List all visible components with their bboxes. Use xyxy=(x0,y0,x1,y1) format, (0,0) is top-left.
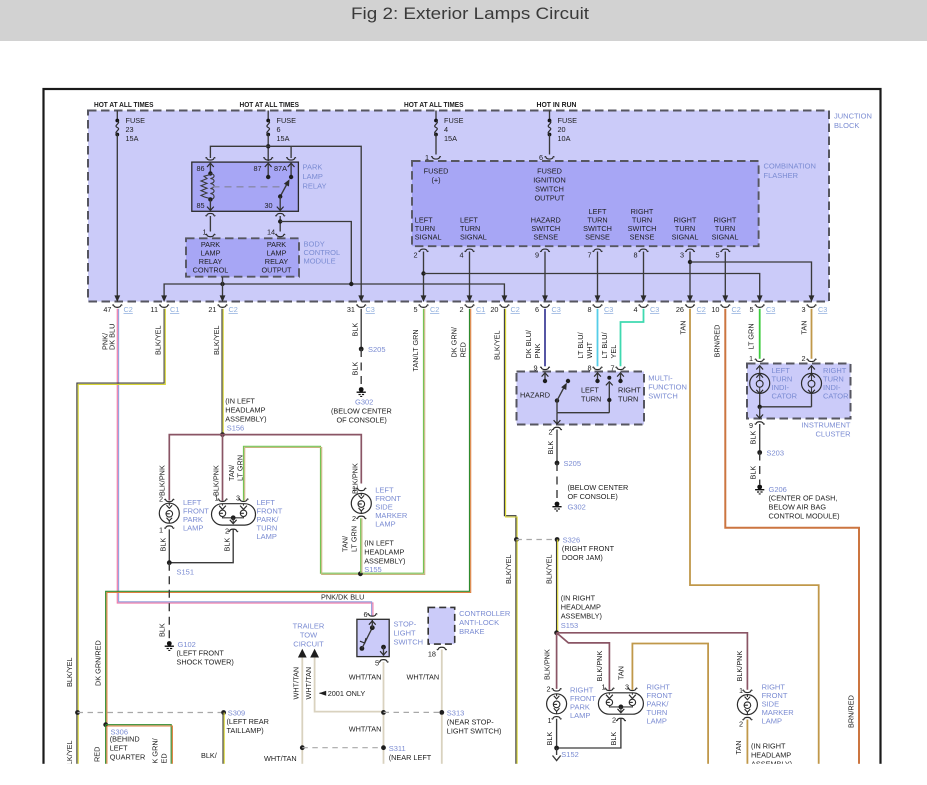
wire BLK/YEL 20C2 to S326 xyxy=(504,309,516,540)
svg-text:CLUSTER: CLUSTER xyxy=(815,430,851,439)
park lamp relay U1 xyxy=(192,162,299,211)
svg-text:SWITCH: SWITCH xyxy=(648,392,678,401)
node S205 xyxy=(359,347,364,352)
svg-text:2: 2 xyxy=(225,527,229,536)
svg-text:G302: G302 xyxy=(355,398,373,407)
svg-text:4: 4 xyxy=(633,305,637,314)
svg-text:TOW: TOW xyxy=(300,631,318,640)
svg-text:9: 9 xyxy=(749,421,753,430)
svg-text:LIGHT SWITCH): LIGHT SWITCH) xyxy=(447,727,502,736)
svg-text:BLK: BLK xyxy=(158,623,167,637)
svg-text:G302: G302 xyxy=(568,503,586,512)
svg-text:S311: S311 xyxy=(389,744,406,753)
svg-text:(NEAR STOP-: (NEAR STOP- xyxy=(447,718,494,727)
svg-text:LIGHT: LIGHT xyxy=(394,629,417,638)
svg-text:C3: C3 xyxy=(552,305,561,314)
wire BLK/PNK S153 run to marker xyxy=(557,633,748,690)
header bar xyxy=(0,0,927,41)
controller anti-lock brake box xyxy=(428,607,455,644)
svg-text:TAN: TAN xyxy=(679,320,688,334)
svg-text:DK BLU/: DK BLU/ xyxy=(524,329,533,358)
svg-text:OF CONSOLE): OF CONSOLE) xyxy=(568,492,618,501)
svg-text:SWITCH: SWITCH xyxy=(535,185,564,194)
svg-text:TURN: TURN xyxy=(581,395,601,404)
svg-text:HEADLAMP: HEADLAMP xyxy=(225,406,265,415)
svg-text:87: 87 xyxy=(254,164,262,173)
wire LT BLU/YEL 4C3 to multifunction pin7 xyxy=(621,309,644,367)
stop-light switch pin6 xyxy=(368,614,377,616)
svg-text:BLK/PNK: BLK/PNK xyxy=(595,651,604,682)
svg-text:3: 3 xyxy=(625,683,629,692)
svg-text:5: 5 xyxy=(749,305,753,314)
svg-text:6: 6 xyxy=(363,610,367,619)
wire BLK right park/turn pin2 to S152 xyxy=(557,719,621,748)
svg-text:FUNCTION: FUNCTION xyxy=(648,383,687,392)
svg-text:MULTI-: MULTI- xyxy=(648,374,673,383)
svg-text:HOT IN RUN: HOT IN RUN xyxy=(537,100,577,109)
wire LT BLU/WHT 8C3 to multifunction pin8 xyxy=(597,309,599,367)
flasher pin 7 out xyxy=(593,249,602,251)
wire BRN/RED 10C2 down right xyxy=(725,309,859,765)
svg-text:BLK: BLK xyxy=(351,362,360,376)
multifunction pin 2 out xyxy=(556,413,558,424)
svg-text:FUSE: FUSE xyxy=(444,116,464,125)
svg-text:11: 11 xyxy=(150,305,158,314)
wire BLK 31C3 to S205 xyxy=(360,309,362,349)
svg-text:LAMP: LAMP xyxy=(647,717,667,726)
left front side marker lamp B3 xyxy=(357,488,366,490)
svg-text:C1: C1 xyxy=(476,305,485,314)
svg-text:SENSE: SENSE xyxy=(533,233,558,242)
svg-text:1: 1 xyxy=(203,228,207,237)
node S155 xyxy=(358,571,363,576)
flasher pin 2 out xyxy=(419,249,428,251)
svg-text:S156: S156 xyxy=(227,424,245,433)
svg-text:9: 9 xyxy=(535,251,539,260)
svg-text:TAN/: TAN/ xyxy=(341,535,350,552)
svg-text:C1: C1 xyxy=(170,305,179,314)
svg-text:BLK/YEL: BLK/YEL xyxy=(493,330,502,360)
svg-text:30: 30 xyxy=(265,201,273,210)
right front park/turn lamp B5 xyxy=(598,693,643,714)
svg-text:BLK/YEL: BLK/YEL xyxy=(504,554,513,584)
svg-text:(IN RIGHT: (IN RIGHT xyxy=(751,742,786,751)
svg-text:BELOW AIR BAG: BELOW AIR BAG xyxy=(769,503,827,512)
wire DK GRN/RED S306 branch xyxy=(106,725,172,765)
svg-text:S203: S203 xyxy=(767,449,785,458)
svg-text:7: 7 xyxy=(610,364,614,373)
svg-text:2: 2 xyxy=(459,305,463,314)
svg-text:20: 20 xyxy=(490,305,498,314)
svg-text:BLK: BLK xyxy=(546,441,555,455)
svg-text:LAMP: LAMP xyxy=(762,717,782,726)
wire DK GRN/RED S306 below xyxy=(105,725,107,765)
svg-text:10A: 10A xyxy=(558,134,571,143)
node S151 xyxy=(167,560,172,565)
svg-text:LEFT: LEFT xyxy=(110,744,128,753)
svg-text:TRAILER: TRAILER xyxy=(293,622,325,631)
fuse 6 xyxy=(267,111,269,121)
svg-text:7: 7 xyxy=(587,251,591,260)
wire TAN/LT GRN marker pin2 to S155 xyxy=(360,518,362,573)
svg-text:S153: S153 xyxy=(561,621,579,630)
junction block bottom arrowheads xyxy=(114,295,120,302)
svg-text:FUSED: FUSED xyxy=(424,167,449,176)
svg-text:6: 6 xyxy=(539,153,543,162)
wire DK GRN/RED 2C1 down to left run xyxy=(106,309,470,725)
wire LT GRN 5C3 to cluster pin1 xyxy=(759,309,761,359)
fuse 23 xyxy=(116,111,118,121)
svg-text:LEFT: LEFT xyxy=(581,386,599,395)
svg-text:8: 8 xyxy=(587,305,591,314)
svg-text:RELAY: RELAY xyxy=(303,182,327,191)
left turn indicator bulb xyxy=(756,366,763,370)
svg-text:(LEFT FRONT: (LEFT FRONT xyxy=(177,649,225,658)
wire pin3 to 3C3 xyxy=(690,262,812,296)
svg-text:RED: RED xyxy=(93,747,102,762)
svg-text:2: 2 xyxy=(548,428,552,437)
wire BLK/YEL 21C2 to S156 xyxy=(221,309,223,435)
wire BLK/PNK S156 to park/turn pin1 xyxy=(222,435,224,501)
svg-text:2: 2 xyxy=(413,251,417,260)
svg-text:FUSE: FUSE xyxy=(558,116,578,125)
combination flasher xyxy=(412,161,759,246)
svg-text:S205: S205 xyxy=(564,459,582,468)
wire BLK/YEL S326 down to bottom xyxy=(515,540,517,765)
svg-text:TAN: TAN xyxy=(734,740,743,754)
svg-text:C3: C3 xyxy=(604,305,613,314)
svg-text:HEADLAMP: HEADLAMP xyxy=(751,751,791,760)
svg-text:31: 31 xyxy=(347,305,355,314)
svg-text:87A: 87A xyxy=(274,164,287,173)
wire BLK dashed to G302b xyxy=(556,463,558,502)
svg-text:FUSE: FUSE xyxy=(277,116,297,125)
svg-text:5: 5 xyxy=(413,305,417,314)
node S306 xyxy=(103,722,108,727)
svg-text:C3: C3 xyxy=(650,305,659,314)
svg-text:C2: C2 xyxy=(124,305,133,314)
controller anti-lock brake pin18 xyxy=(437,647,446,649)
svg-text:OF CONSOLE): OF CONSOLE) xyxy=(337,416,387,425)
wire TAN right park/turn pin3 down xyxy=(632,644,708,765)
left front park/turn lamp B2 xyxy=(212,504,256,525)
svg-text:S151: S151 xyxy=(177,568,195,577)
svg-text:TAILLAMP): TAILLAMP) xyxy=(227,726,264,735)
svg-text:15A: 15A xyxy=(277,134,290,143)
svg-text:BLK/YEL: BLK/YEL xyxy=(545,554,554,584)
splice dash S326 xyxy=(516,539,557,541)
wire BLK/YEL S309 drop xyxy=(222,713,224,765)
svg-text:1: 1 xyxy=(352,484,356,493)
svg-text:LT BLU/: LT BLU/ xyxy=(576,331,585,358)
wire fuse6 to relay 86 xyxy=(210,146,268,158)
fuse 4 xyxy=(435,111,437,121)
svg-text:ASSEMBLY): ASSEMBLY) xyxy=(561,612,602,621)
svg-text:WHT/TAN: WHT/TAN xyxy=(264,754,297,763)
wire S152 continuation xyxy=(556,748,558,755)
svg-text:SIGNAL: SIGNAL xyxy=(712,233,739,242)
splice S309 xyxy=(75,710,80,715)
svg-text:ANTI-LOCK: ANTI-LOCK xyxy=(459,618,499,627)
right front side marker lamp B6 xyxy=(743,690,752,692)
svg-text:2: 2 xyxy=(352,514,356,523)
svg-text:INSTRUMENT: INSTRUMENT xyxy=(801,421,851,430)
svg-text:BLK/YEL: BLK/YEL xyxy=(65,657,74,687)
wire TAN 26C2 down right xyxy=(690,309,819,765)
svg-text:BLK: BLK xyxy=(351,323,360,337)
cluster bulb common xyxy=(759,394,761,407)
svg-text:DK GRN/RED: DK GRN/RED xyxy=(94,640,103,686)
wire DK BLU/PNK 6C3 to multifunction pin9 xyxy=(544,309,546,367)
body control module xyxy=(186,238,299,276)
svg-text:86: 86 xyxy=(197,164,205,173)
svg-text:BRN/RED: BRN/RED xyxy=(847,695,856,728)
svg-text:3: 3 xyxy=(680,251,684,260)
svg-text:CONTROL MODULE): CONTROL MODULE) xyxy=(769,512,840,521)
wire BLK dashed S205 to G302 xyxy=(360,349,362,387)
svg-text:LT BLU/: LT BLU/ xyxy=(600,331,609,358)
svg-text:QUARTER: QUARTER xyxy=(110,753,146,762)
multifunction switch internals xyxy=(540,367,549,369)
svg-text:COMBINATION: COMBINATION xyxy=(764,162,816,171)
svg-text:FUSED: FUSED xyxy=(537,167,562,176)
svg-text:DK BLU: DK BLU xyxy=(108,324,117,350)
svg-text:C3: C3 xyxy=(366,305,375,314)
svg-text:21: 21 xyxy=(208,305,216,314)
wire 87A stub xyxy=(290,146,292,158)
svg-text:8: 8 xyxy=(633,251,637,260)
svg-text:BLK/PNK: BLK/PNK xyxy=(212,465,221,496)
wire WHT/TAN trailer 2 xyxy=(315,658,384,712)
clip bottom xyxy=(38,764,890,785)
instrument cluster box xyxy=(747,364,851,419)
svg-text:47: 47 xyxy=(103,305,111,314)
svg-text:BLK: BLK xyxy=(749,431,758,445)
relay 30 out xyxy=(279,197,281,211)
fuse 20 xyxy=(549,111,551,121)
svg-text:1: 1 xyxy=(425,153,429,162)
svg-text:CATOR: CATOR xyxy=(772,392,798,401)
node S326 xyxy=(514,537,519,542)
relay 87A branch xyxy=(288,163,295,167)
svg-text:S152: S152 xyxy=(561,750,579,759)
svg-text:TAN: TAN xyxy=(617,666,626,680)
svg-text:C2: C2 xyxy=(511,305,520,314)
svg-text:WHT/TAN: WHT/TAN xyxy=(292,667,301,700)
svg-text:SIGNAL: SIGNAL xyxy=(672,233,699,242)
svg-text:CATOR: CATOR xyxy=(823,392,849,401)
stop-light switch box xyxy=(357,619,389,656)
svg-text:LT GRN: LT GRN xyxy=(350,526,359,552)
wire relay30 down xyxy=(279,216,281,232)
relay switch blade xyxy=(280,182,288,197)
wire BLK dashed S151 to G102 xyxy=(168,563,170,641)
svg-text:HOT AT ALL TIMES: HOT AT ALL TIMES xyxy=(94,100,154,109)
svg-text:3: 3 xyxy=(801,305,805,314)
svg-text:HOT AT ALL TIMES: HOT AT ALL TIMES xyxy=(240,100,300,109)
svg-text:ASSEMBLY): ASSEMBLY) xyxy=(225,415,266,424)
left front park lamp B1 xyxy=(165,499,174,501)
svg-text:2: 2 xyxy=(612,716,616,725)
node fuse6 junction xyxy=(266,144,270,148)
flasher pin 5 out xyxy=(721,249,730,251)
svg-text:BLK/: BLK/ xyxy=(201,751,218,760)
svg-text:4: 4 xyxy=(444,125,448,134)
svg-text:8: 8 xyxy=(587,364,591,373)
svg-text:YEL: YEL xyxy=(609,345,618,359)
svg-text:HEADLAMP: HEADLAMP xyxy=(364,548,404,557)
wire BLK dashed S203 to G206 xyxy=(759,453,761,485)
wire relay85 to BCM pin1 xyxy=(209,216,211,232)
svg-text:SIGNAL: SIGNAL xyxy=(415,233,442,242)
svg-text:JUNCTION: JUNCTION xyxy=(834,112,872,121)
wire pin2 to 5C3 xyxy=(424,274,760,296)
svg-text:CONTROL: CONTROL xyxy=(193,266,229,275)
svg-text:(IN LEFT: (IN LEFT xyxy=(225,397,255,406)
flasher pin 4 out xyxy=(465,249,474,251)
svg-text:85: 85 xyxy=(197,201,205,210)
svg-text:STOP-: STOP- xyxy=(394,620,417,629)
flasher pin 3 out xyxy=(685,249,694,251)
svg-text:2001 ONLY: 2001 ONLY xyxy=(328,689,366,698)
wire PNK/DK BLU 47C2 to stop-light switch pin6 xyxy=(117,309,373,616)
svg-text:1: 1 xyxy=(749,354,753,363)
relay 87 branch xyxy=(265,163,272,167)
flasher pin 8 out xyxy=(639,249,648,251)
node relay30 junction xyxy=(278,219,282,223)
svg-text:BLK: BLK xyxy=(223,538,232,552)
svg-text:TAN: TAN xyxy=(800,320,809,334)
svg-text:(CENTER OF DASH,: (CENTER OF DASH, xyxy=(769,494,838,503)
svg-text:SENSE: SENSE xyxy=(630,233,655,242)
wire BLK right park pin1 to S152 xyxy=(556,719,558,748)
wire BLK/YEL S326 to S153 xyxy=(556,540,558,633)
node S152 xyxy=(554,746,559,751)
relay 85 out xyxy=(209,200,211,211)
svg-text:TAN/LT GRN: TAN/LT GRN xyxy=(411,329,420,371)
svg-text:1: 1 xyxy=(739,686,743,695)
relay 86 branch xyxy=(207,163,214,167)
svg-text:BRAKE: BRAKE xyxy=(459,627,484,636)
svg-text:18: 18 xyxy=(428,650,436,659)
svg-text:3: 3 xyxy=(236,494,240,503)
ground G102 xyxy=(165,641,174,651)
svg-text:DOOR JAM): DOOR JAM) xyxy=(562,553,603,562)
svg-text:CONTROLLER: CONTROLLER xyxy=(459,609,511,618)
svg-text:MODULE: MODULE xyxy=(304,257,336,266)
svg-text:FUSE: FUSE xyxy=(126,116,146,125)
svg-text:10: 10 xyxy=(711,305,719,314)
svg-text:2: 2 xyxy=(546,685,550,694)
wire WHT/TAN CAB pin18 down xyxy=(441,650,443,765)
svg-text:C2: C2 xyxy=(229,305,238,314)
stop-light switch internals xyxy=(360,646,365,651)
wire BLK park/turn pin2 to S151 xyxy=(169,530,233,563)
svg-text:BLK/YEL: BLK/YEL xyxy=(154,325,163,355)
svg-text:PNK: PNK xyxy=(533,343,542,358)
svg-text:LAMP: LAMP xyxy=(375,520,395,529)
svg-text:BLK: BLK xyxy=(749,466,758,480)
right turn indicator bulb xyxy=(808,366,815,370)
svg-text:WHT: WHT xyxy=(585,341,594,358)
svg-text:K GRN/: K GRN/ xyxy=(151,737,160,763)
svg-text:PNK/DK BLU: PNK/DK BLU xyxy=(321,593,364,602)
wire BLK/YEL 11C1 to left run xyxy=(77,309,164,765)
svg-text:TURN: TURN xyxy=(618,395,638,404)
svg-text:4: 4 xyxy=(459,251,463,260)
svg-text:RIGHT: RIGHT xyxy=(618,386,641,395)
svg-text:LAMP: LAMP xyxy=(303,172,323,181)
wire TAN 3C3 to cluster pin2 xyxy=(811,309,813,359)
svg-text:SHOCK TOWER): SHOCK TOWER) xyxy=(177,658,234,667)
svg-text:WHT/TAN: WHT/TAN xyxy=(349,725,382,734)
svg-text:BRN/RED: BRN/RED xyxy=(713,325,722,358)
svg-text:HOT AT ALL TIMES: HOT AT ALL TIMES xyxy=(404,100,464,109)
instrument cluster pins xyxy=(755,359,764,361)
svg-text:RED: RED xyxy=(459,342,468,357)
svg-text:5: 5 xyxy=(375,659,379,668)
svg-text:SIGNAL: SIGNAL xyxy=(460,233,487,242)
wire bus y284 xyxy=(164,284,504,296)
hazard blade xyxy=(555,398,559,402)
multi-function switch box xyxy=(517,372,645,425)
svg-text:LT GRN: LT GRN xyxy=(236,455,245,481)
svg-text:Fig 2: Exterior Lamps Circuit: Fig 2: Exterior Lamps Circuit xyxy=(351,4,589,23)
svg-text:14: 14 xyxy=(267,228,275,237)
svg-text:PARK: PARK xyxy=(303,163,323,172)
svg-text:(IN LEFT: (IN LEFT xyxy=(364,539,394,548)
wire WHT/TAN trailer 1 xyxy=(301,658,303,765)
svg-text:WHT/TAN: WHT/TAN xyxy=(304,667,313,700)
svg-text:S313: S313 xyxy=(447,709,465,718)
svg-text:CIRCUIT: CIRCUIT xyxy=(293,640,324,649)
svg-text:20: 20 xyxy=(558,125,566,134)
svg-text:(NEAR LEFT: (NEAR LEFT xyxy=(389,753,432,762)
wire WHT/TAN stoplight pin5 down xyxy=(383,662,385,765)
svg-text:23: 23 xyxy=(126,125,134,134)
svg-text:26: 26 xyxy=(676,305,684,314)
svg-text:6: 6 xyxy=(535,305,539,314)
svg-text:S155: S155 xyxy=(364,565,382,574)
svg-text:(IN RIGHT: (IN RIGHT xyxy=(561,594,596,603)
svg-text:ED: ED xyxy=(160,753,169,763)
svg-text:2: 2 xyxy=(801,354,805,363)
svg-text:FLASHER: FLASHER xyxy=(764,171,799,180)
svg-text:WHT/TAN: WHT/TAN xyxy=(407,673,440,682)
svg-text:(BEHIND: (BEHIND xyxy=(110,735,140,744)
svg-text:(+): (+) xyxy=(431,176,440,185)
wire fuse23 to connector 47 xyxy=(116,135,118,296)
trailer tow arrows xyxy=(298,649,307,658)
svg-text:BLK: BLK xyxy=(609,732,618,746)
svg-text:LAMP: LAMP xyxy=(257,532,277,541)
svg-text:(BELOW CENTER: (BELOW CENTER xyxy=(568,483,629,492)
svg-text:2: 2 xyxy=(159,495,163,504)
right front park lamp B4 xyxy=(552,689,561,691)
wire TAN/LT GRN park/turn pin3 to S155 xyxy=(244,446,361,573)
svg-text:BLK/PNK: BLK/PNK xyxy=(158,465,167,496)
wire fuse6 to 87A and connector 31 C3 xyxy=(268,146,361,295)
svg-text:BLK: BLK xyxy=(545,732,554,746)
wire BLK cluster pin9 to S203 xyxy=(759,424,761,453)
relay coil xyxy=(210,174,214,200)
svg-text:C2: C2 xyxy=(430,305,439,314)
svg-text:BLOCK: BLOCK xyxy=(834,121,859,130)
wire BLK park lamp pin1 to S151 xyxy=(168,529,170,562)
svg-text:IGNITION: IGNITION xyxy=(533,176,565,185)
svg-text:2: 2 xyxy=(739,720,743,729)
svg-text:SWITCH: SWITCH xyxy=(394,638,424,647)
